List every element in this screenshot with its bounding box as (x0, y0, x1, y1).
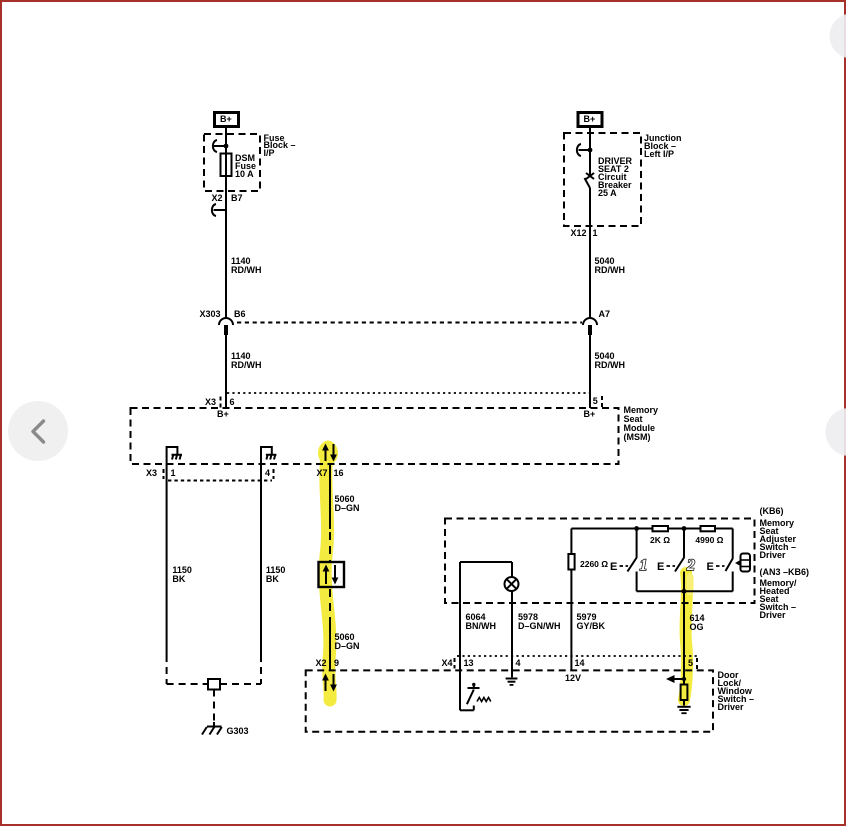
svg-text:2: 2 (686, 557, 695, 574)
svg-text:1: 1 (640, 557, 648, 574)
